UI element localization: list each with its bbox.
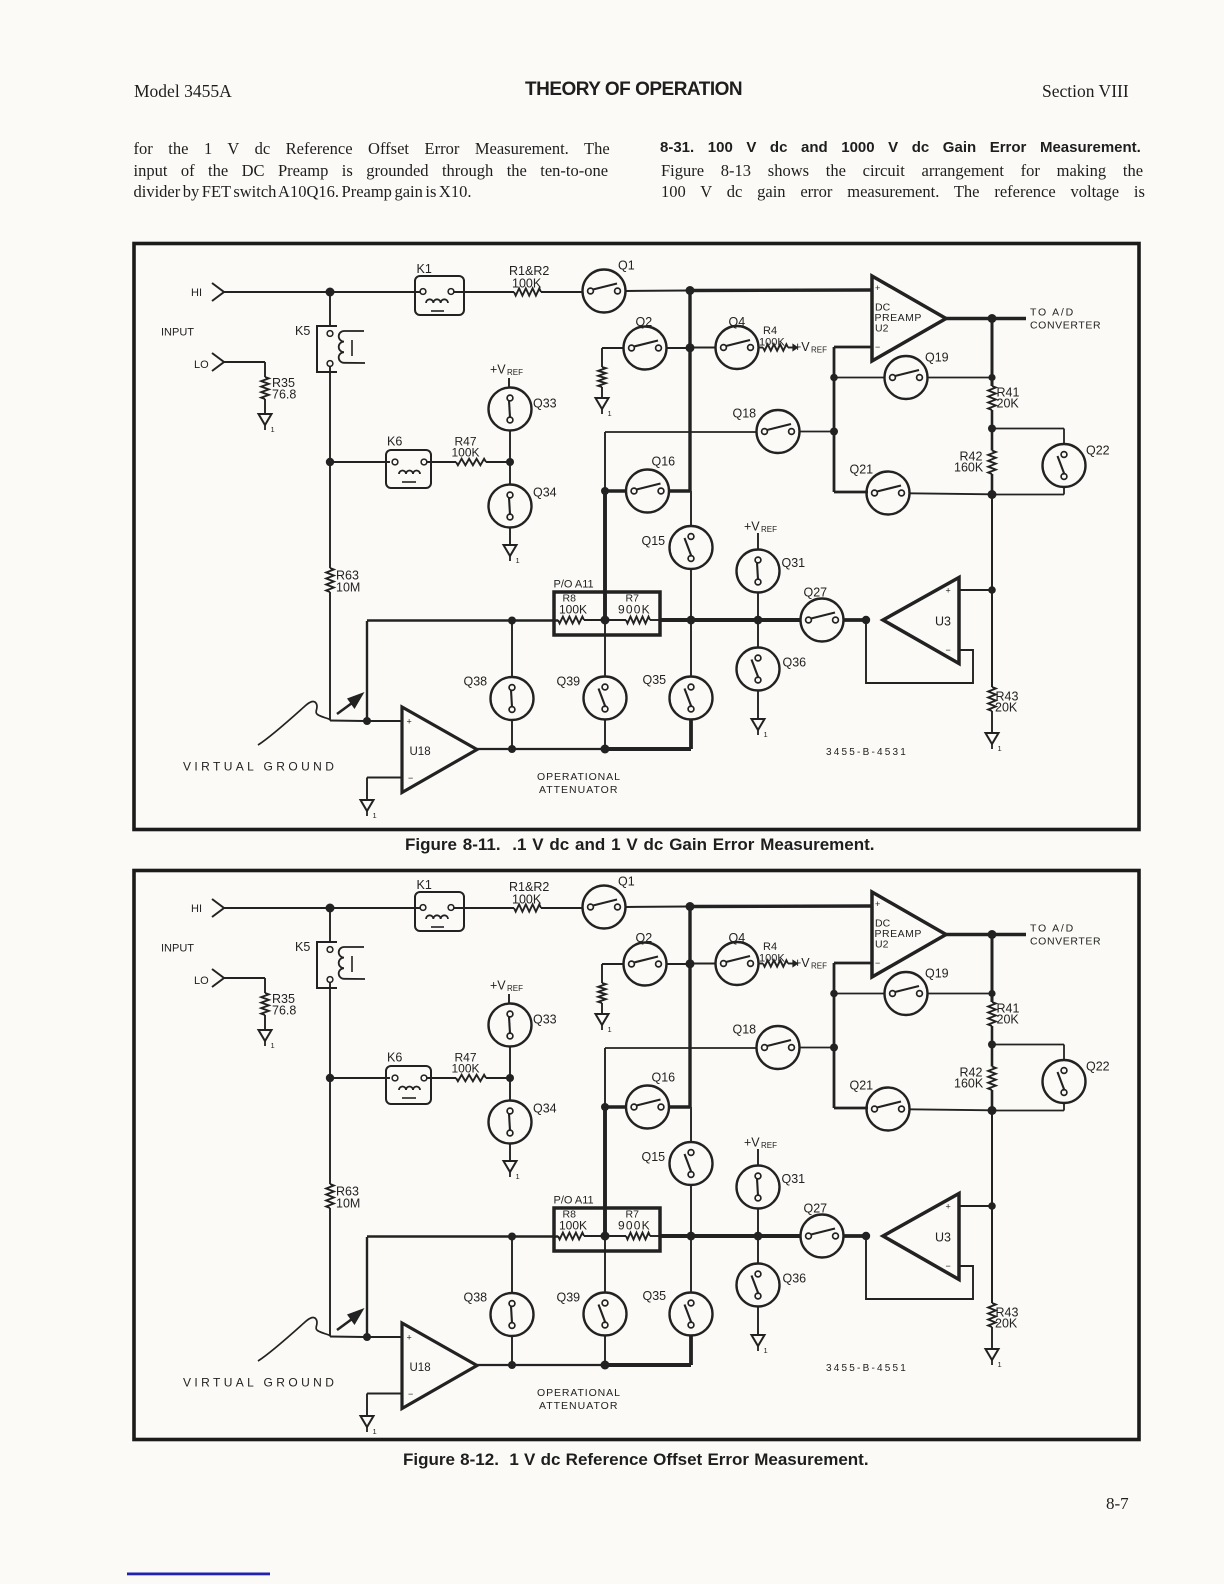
svg-text:3455-B-4531: 3455-B-4531 <box>826 747 908 758</box>
svg-text:3455-B-4551: 3455-B-4551 <box>826 1363 908 1374</box>
